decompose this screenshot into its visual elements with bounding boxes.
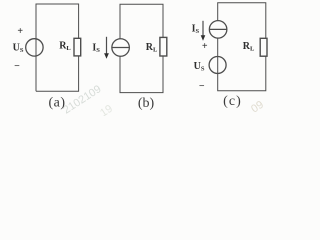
- svg-text:(a): (a): [48, 95, 65, 110]
- svg-text:−: −: [199, 81, 205, 92]
- svg-text:(b): (b): [138, 96, 155, 111]
- svg-text:−: −: [14, 61, 20, 72]
- svg-text:(c): (c): [223, 94, 242, 109]
- svg-text:+: +: [202, 41, 208, 52]
- svg-text:+: +: [17, 26, 23, 37]
